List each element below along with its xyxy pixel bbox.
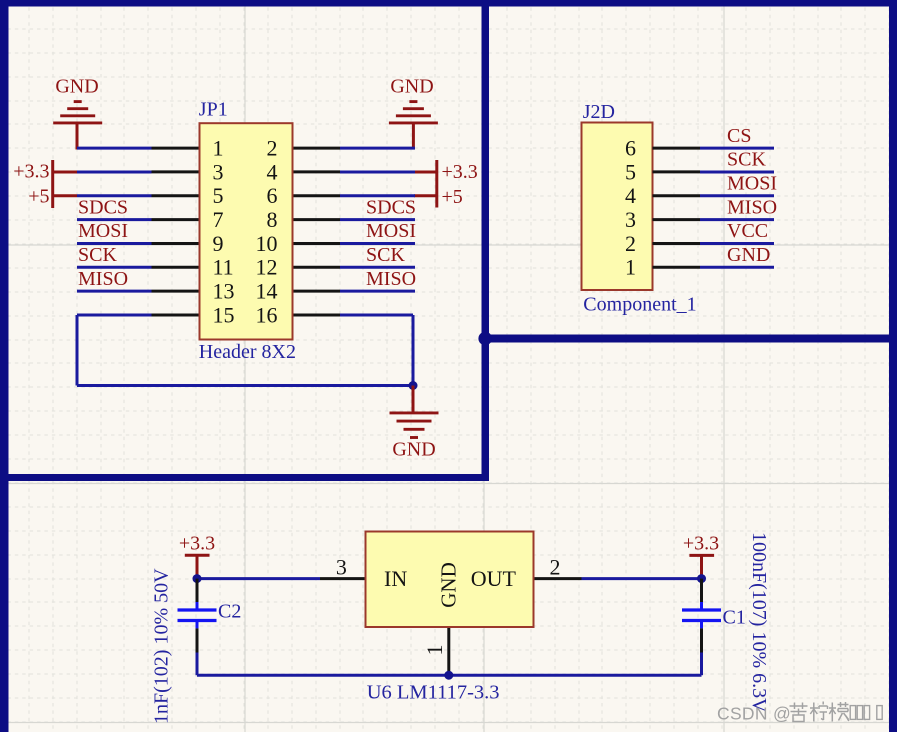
junction dot on divider T [478,332,492,346]
watermark hanzi 2 (approx strokes) [810,702,828,722]
svg-text:MISO: MISO [366,268,416,290]
svg-text:+5: +5 [28,186,49,208]
power port +3.3 left: lead [53,170,77,173]
svg-text:GND: GND [390,76,433,98]
svg-text:JP1: JP1 [199,99,228,121]
svg-text:7: 7 [213,207,224,232]
capacitor C1 top plate [682,608,721,611]
power port GND top-left: symbol bars [74,100,82,103]
power port +3.3 right: lead [414,170,437,173]
power port GND bottom of JP1: stem [412,386,415,412]
capacitor C1 pin 1 (top) [700,579,703,602]
capacitor C2 bottom plate [178,619,217,622]
svg-text:5: 5 [625,159,636,184]
wire row4 left (SDCS) [77,218,152,221]
U6 pin 2 (OUT) [534,577,582,580]
wire J2D pin4 (MOSI) [700,194,774,197]
sheet border top edge [0,0,897,7]
svg-text:4: 4 [267,159,278,184]
svg-text:3: 3 [625,207,636,232]
svg-text:Header 8X2: Header 8X2 [199,341,296,363]
capacitor C1 bottom lead stub [700,622,703,629]
connector JP1 body [200,123,293,339]
connector J2D body [582,123,653,291]
svg-text:MOSI: MOSI [366,220,416,242]
watermark hanzi 3 (approx strokes) [829,702,849,722]
wire row6 left (SCK) [77,266,152,269]
capacitor C2 bottom lead stub [196,622,199,629]
capacitor C2 top plate [178,608,217,611]
wire bottom rail [197,674,702,677]
power port +3.3 above C1: bar [689,554,714,557]
svg-text:MOSI: MOSI [727,172,777,194]
JP1 pin numbers left column [213,136,235,328]
svg-text:10: 10 [256,231,278,256]
watermark tofu boxes [850,706,882,720]
wire row1 right (pin2 to GND) [340,147,415,150]
power port +5 left: bar [51,184,54,208]
power port +3.3 above C2: bar [185,554,210,557]
wire row7 right (MISO) [340,290,415,293]
svg-text:15: 15 [213,302,235,327]
capacitor C2 pin 1 (top) [196,579,199,602]
svg-text:CSDN @: CSDN @ [717,704,791,724]
svg-text:2: 2 [550,554,561,579]
U6 pin 1 (GND) [447,627,450,675]
svg-text:SDCS: SDCS [366,196,416,218]
wire row3 left [77,194,152,197]
svg-text:6: 6 [625,136,636,161]
power port GND bottom of JP1: symbol bars [390,411,439,414]
svg-text:9: 9 [213,231,224,256]
JP1 pin numbers right column [256,136,278,328]
wire bottom horizontal (row8 loop) [77,384,413,387]
svg-text:+3.3: +3.3 [13,161,49,183]
wire row8 left horizontal [77,313,152,316]
capacitor C1 pin 2 (bottom) [700,628,703,652]
wire row6 right (SCK) [340,266,415,269]
horizontal divider under top-right sheet [482,335,897,343]
capacitor C1 bottom plate [682,619,721,622]
svg-text:GND: GND [437,562,461,608]
wire row8 right horizontal [340,313,413,316]
power port +5 right: lead [414,194,437,197]
horizontal divider under top-left sheet [0,474,489,481]
wire row8 right vertical [412,315,415,386]
svg-text:1: 1 [625,255,636,280]
svg-text:C1: C1 [723,607,746,629]
wire J2D pin3 (MISO) [700,218,774,221]
wire row8 left vertical [76,315,79,386]
U6 pin 3 (IN) [320,577,366,580]
svg-text:MISO: MISO [727,196,777,218]
power port +3.3 above C1: stem [700,555,703,578]
svg-text:3: 3 [336,554,347,579]
power port GND top-right: stem [412,123,415,150]
svg-text:+5: +5 [442,186,463,208]
svg-text:C2: C2 [218,601,241,623]
svg-text:U6 LM1117-3.3: U6 LM1117-3.3 [367,681,500,703]
wire row7 left (MISO) [77,290,152,293]
svg-text:VCC: VCC [727,220,768,242]
junction dot row8 loop [409,381,418,390]
J2D pins (6..1) [653,148,701,267]
power port GND top-left: stem [76,123,79,150]
svg-text:13: 13 [213,279,235,304]
regulator U6 body [366,532,534,628]
svg-text:GND: GND [727,244,770,266]
power port GND top-right: symbol bars [409,100,417,103]
wire row4 right (SDCS) [340,218,415,221]
svg-text:12: 12 [256,255,278,280]
svg-text:1: 1 [213,136,224,161]
wire J2D pin2 (VCC) [700,242,774,245]
J2D pin numbers 6..1 [625,136,636,280]
power port +5 left: lead [53,194,77,197]
svg-text:SCK: SCK [78,244,117,266]
wire top rail C2 to U6 IN [197,577,320,580]
svg-text:MISO: MISO [78,268,128,290]
svg-text:1nF(102) 10% 50V: 1nF(102) 10% 50V [151,568,173,724]
wire C1 to bottom rail [700,653,703,676]
wire J2D pin6 (CS) [700,147,774,150]
junction dot at C2 top [193,574,202,583]
power port +3.3 right: bar [435,160,438,184]
wire J2D pin1 (GND) [700,266,774,269]
svg-text:6: 6 [267,183,278,208]
svg-text:OUT: OUT [471,566,517,591]
svg-text:16: 16 [256,302,278,327]
svg-text:J2D: J2D [583,101,615,123]
capacitor C2 top lead stub [196,602,199,609]
svg-text:100nF(107) 10% 6.3V: 100nF(107) 10% 6.3V [748,532,770,713]
svg-text:11: 11 [213,255,234,280]
wire row3 right [340,194,415,197]
svg-text:3: 3 [213,159,224,184]
svg-text:GND: GND [55,76,98,98]
svg-text:+3.3: +3.3 [683,533,719,555]
svg-text:8: 8 [267,207,278,232]
svg-text:1: 1 [422,645,447,656]
svg-text:MOSI: MOSI [78,220,128,242]
svg-text:Component_1: Component_1 [583,294,696,316]
wire C2 to bottom rail [196,653,199,676]
svg-text:SCK: SCK [727,149,766,171]
sheet border left edge [0,0,9,732]
svg-text:5: 5 [213,183,224,208]
vertical divider between left and right sheets [482,0,490,481]
svg-text:IN: IN [384,566,407,591]
svg-text:14: 14 [256,279,278,304]
wire row2 right [340,170,415,173]
wire U6 OUT to C1 [582,577,702,580]
JP1 pins right side (2,4,6,8,10,12,14,16) [293,148,341,315]
watermark hanzi 1 (approx strokes) [790,703,808,722]
svg-text:SDCS: SDCS [78,196,128,218]
wire row5 left (MOSI) [77,242,152,245]
wire J2D pin5 (SCK) [700,170,774,173]
wire row5 right (MOSI) [340,242,415,245]
svg-text:SCK: SCK [366,244,405,266]
svg-text:+3.3: +3.3 [442,161,478,183]
svg-text:2: 2 [625,231,636,256]
wire row1 left (GND to pin1) [77,147,152,150]
wire row2 left [77,170,152,173]
svg-text:+3.3: +3.3 [179,533,215,555]
svg-text:GND: GND [392,439,435,461]
junction dot U6 GND to bottom rail [444,671,453,680]
capacitor C1 top lead stub [700,602,703,609]
svg-text:2: 2 [267,136,278,161]
power port +3.3 left: bar [51,160,54,184]
sheet border right edge [889,0,897,732]
capacitor C2 pin 2 (bottom) [196,628,199,652]
svg-text:4: 4 [625,183,636,208]
power port +3.3 above C2: stem [196,555,199,578]
power port +5 right: bar [435,184,438,208]
svg-text:CS: CS [727,125,751,147]
junction dot at C1 top [697,574,706,583]
JP1 pins left side (1,3,5,7,9,11,13,15) [152,148,200,315]
